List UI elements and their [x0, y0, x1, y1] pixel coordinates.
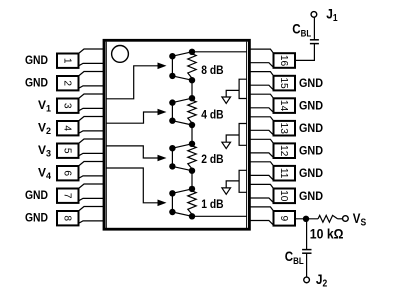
svg-text:GND: GND — [299, 121, 323, 135]
svg-text:7: 7 — [61, 193, 72, 199]
svg-text:5: 5 — [61, 148, 72, 154]
svg-text:GND: GND — [299, 166, 323, 180]
svg-text:16: 16 — [278, 55, 289, 67]
svg-text:GND: GND — [299, 189, 323, 203]
svg-text:1 dB: 1 dB — [201, 199, 223, 211]
svg-text:12: 12 — [278, 145, 289, 157]
svg-text:14: 14 — [278, 100, 289, 112]
svg-text:GND: GND — [25, 53, 48, 67]
svg-text:8: 8 — [61, 215, 72, 221]
svg-text:8 dB: 8 dB — [201, 65, 223, 77]
svg-text:GND: GND — [299, 76, 323, 90]
svg-text:GND: GND — [299, 99, 323, 113]
svg-text:GND: GND — [25, 211, 48, 225]
svg-text:GND: GND — [25, 76, 48, 90]
svg-text:6: 6 — [61, 170, 72, 176]
svg-text:GND: GND — [299, 144, 323, 158]
svg-text:15: 15 — [278, 77, 289, 89]
svg-text:2: 2 — [61, 80, 72, 86]
svg-text:11: 11 — [278, 168, 289, 179]
svg-text:3: 3 — [61, 103, 72, 109]
svg-text:10 kΩ: 10 kΩ — [310, 226, 344, 241]
svg-text:1: 1 — [61, 58, 72, 64]
svg-text:9: 9 — [278, 215, 289, 221]
svg-text:4 dB: 4 dB — [201, 109, 223, 121]
svg-text:2 dB: 2 dB — [201, 154, 223, 166]
svg-text:13: 13 — [278, 123, 289, 135]
svg-text:4: 4 — [61, 125, 72, 131]
svg-text:10: 10 — [278, 190, 289, 202]
svg-text:GND: GND — [25, 188, 48, 202]
